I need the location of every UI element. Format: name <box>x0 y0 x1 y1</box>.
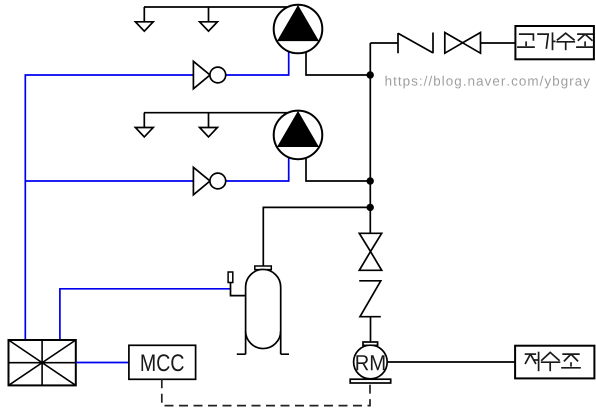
control wiring (dashed) <box>162 379 370 405</box>
wire: branch to pressure tank <box>263 207 370 266</box>
flexible joint FJ1 <box>359 281 381 317</box>
reservoir box 저수조 <box>515 346 594 379</box>
wire: pipe to elevated tank <box>370 42 515 44</box>
label 수 <box>541 352 561 371</box>
level switch LS1 <box>193 61 210 89</box>
pressure tank <box>246 269 281 348</box>
drain arrow A3 head <box>135 128 153 137</box>
wire: riser to meter <box>370 317 372 343</box>
label 조 <box>576 34 594 47</box>
wire: blue sensing line pump1 <box>25 50 288 340</box>
tank sensor <box>228 272 233 283</box>
junction J1 <box>367 71 374 78</box>
gate valve GV1 <box>445 33 463 54</box>
drain arrow A4 head <box>200 128 218 137</box>
drain arrow A2 head <box>200 22 218 31</box>
label 고 <box>517 34 535 47</box>
control panel <box>9 340 76 385</box>
pump P1 <box>274 5 323 54</box>
gate valve GV2 (vertical) <box>359 233 381 251</box>
water meter RM <box>354 345 388 379</box>
wire: row1 header line <box>144 6 298 8</box>
junction J2 <box>367 177 374 184</box>
level switch LS2 <box>193 167 210 195</box>
drain arrow A1 head <box>135 22 153 31</box>
wire: sensor drop to tank <box>231 283 246 296</box>
wire: blue line to tank sensor <box>60 289 231 340</box>
label 조 <box>561 354 581 368</box>
MCC box <box>129 345 196 379</box>
drain arrow A2 stem <box>208 7 210 22</box>
wire: black discharge pump2 <box>306 156 370 181</box>
wire: main riser <box>369 43 371 233</box>
label 수 <box>556 33 575 50</box>
wire: blue sensing line pump2 <box>25 156 288 181</box>
label 저 <box>525 352 539 372</box>
label 가 <box>537 32 555 50</box>
wire: meter to reservoir <box>387 361 515 363</box>
tank feet <box>237 353 289 355</box>
wire: black discharge pump1 <box>306 50 370 75</box>
meter base <box>350 379 391 383</box>
check valve CV1 <box>398 33 433 54</box>
pump P2 <box>274 111 323 160</box>
tank legs <box>246 331 281 354</box>
tank top fitting <box>255 266 271 270</box>
junction J3 <box>367 204 374 211</box>
wire: blue panel to MCC <box>76 362 129 364</box>
drain arrow A4 stem <box>208 113 210 128</box>
watermark text <box>386 76 590 89</box>
wire: row2 header line <box>144 112 298 114</box>
elevated tank box 고가수조 <box>515 26 594 59</box>
drain arrow A1 stem <box>143 7 145 22</box>
drain arrow A3 stem <box>143 113 145 128</box>
meter flange cap <box>363 342 378 345</box>
